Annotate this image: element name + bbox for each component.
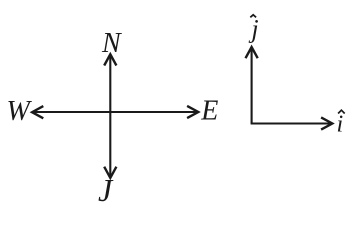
arrowhead j-hat (up) xyxy=(246,47,258,58)
arrowhead E (right) xyxy=(187,106,198,118)
hat of j xyxy=(250,15,256,17)
svg-text:N: N xyxy=(101,28,122,59)
svg-text:J: J xyxy=(98,172,114,208)
hat of i xyxy=(338,110,345,113)
svg-text:W: W xyxy=(7,96,33,127)
compass vertical wire xyxy=(109,56,111,177)
compass horizontal wire xyxy=(34,111,198,113)
arrowhead W (left) xyxy=(32,106,43,118)
arrowhead J (down) xyxy=(104,167,116,178)
axes vertical wire (j) xyxy=(251,48,253,124)
svg-text:i: i xyxy=(337,111,344,137)
axes horizontal wire (i) xyxy=(251,122,331,124)
svg-text:E: E xyxy=(200,96,218,127)
arrowhead i-hat (right) xyxy=(321,117,332,129)
arrowhead N (up) xyxy=(104,54,116,65)
